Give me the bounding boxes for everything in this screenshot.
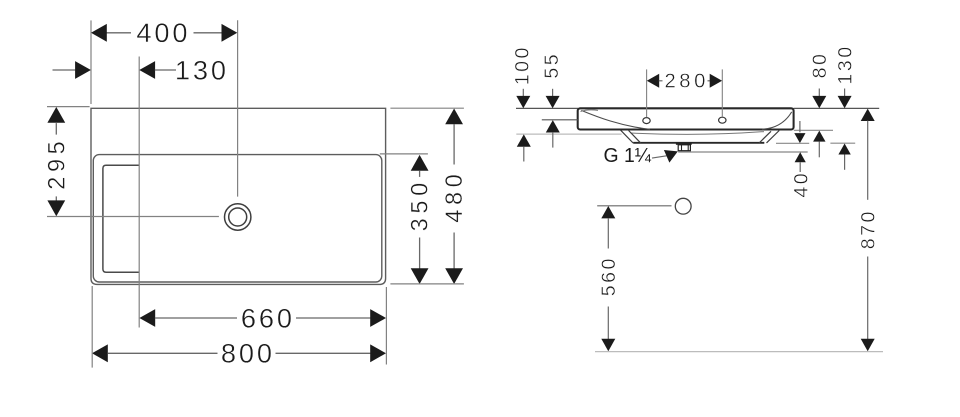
skirt break hatch right: [759, 131, 779, 143]
floor line: [595, 351, 883, 353]
extension line right edge: [385, 287, 387, 365]
dimension 560: [597, 206, 671, 351]
bowl silhouette curve right: [762, 112, 792, 129]
tailpiece bottom reference line: [678, 151, 808, 153]
dimension 660: [139, 302, 386, 333]
extension line shelf edge: [138, 57, 140, 328]
skirt bottom edge: [633, 142, 764, 144]
svg-text:560: 560: [598, 256, 620, 296]
basin profile body (side view): [578, 108, 794, 129]
svg-text:800: 800: [221, 338, 275, 369]
basin shelf outline: [103, 165, 139, 272]
skirt far edge: [631, 132, 765, 135]
dimension 280: [647, 69, 723, 117]
dimension 80: [794, 52, 833, 158]
svg-text:350: 350: [408, 178, 434, 231]
svg-text:480: 480: [442, 170, 468, 223]
svg-text:400: 400: [136, 17, 190, 48]
basin outer outline (top view): [91, 108, 386, 284]
extension line drain center: [237, 20, 239, 196]
dimension 55: [541, 52, 563, 148]
dimension 400: [91, 17, 237, 48]
top reference line: [516, 107, 879, 109]
svg-text:660: 660: [241, 302, 295, 333]
faucet hole right: [719, 117, 726, 123]
dimension 130 side: [830, 44, 856, 169]
bowl rim lip detail: [581, 110, 599, 112]
dimension 870: [857, 109, 879, 352]
drain inner circle: [229, 208, 247, 226]
extension line left edge bottom: [91, 286, 93, 368]
drain outer circle: [225, 204, 251, 230]
drain tailpiece: [676, 143, 692, 151]
basin rim inner outline: [93, 155, 382, 282]
dimension 480: [390, 108, 468, 284]
svg-text:130: 130: [175, 54, 229, 85]
mounting reference line: [516, 133, 621, 135]
svg-text:870: 870: [857, 209, 879, 249]
skirt break hatch left: [621, 130, 641, 143]
dimension 800: [92, 338, 386, 369]
dimension 100: [512, 45, 534, 161]
dimension 295: [44, 107, 219, 217]
bowl silhouette curve left: [581, 110, 650, 129]
extension line left edge: [90, 20, 92, 104]
svg-text:55: 55: [541, 52, 563, 79]
svg-text:80: 80: [809, 52, 831, 79]
mirror hole circle: [675, 198, 691, 214]
dimension 40: [776, 121, 812, 198]
svg-text:40: 40: [790, 171, 812, 198]
svg-text:295: 295: [44, 137, 70, 190]
dimension 130: [53, 54, 229, 85]
front edge reference line: [542, 119, 578, 121]
svg-text:280: 280: [664, 71, 708, 93]
G 1 1/4 drain label: [604, 145, 678, 167]
svg-text:130: 130: [834, 44, 856, 84]
dimension 350: [380, 154, 434, 284]
svg-text:100: 100: [512, 45, 534, 85]
faucet hole left: [643, 118, 650, 124]
svg-text:G 1¼: G 1¼: [604, 145, 652, 167]
